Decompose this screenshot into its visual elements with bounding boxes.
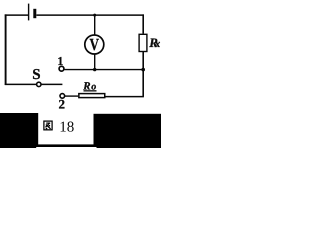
- svg-text:x: x: [154, 38, 161, 50]
- svg-text:1: 1: [57, 54, 63, 68]
- svg-text:V: V: [89, 35, 99, 54]
- svg-text:18: 18: [59, 119, 74, 135]
- svg-text:2: 2: [59, 97, 66, 112]
- svg-text:S: S: [32, 67, 40, 83]
